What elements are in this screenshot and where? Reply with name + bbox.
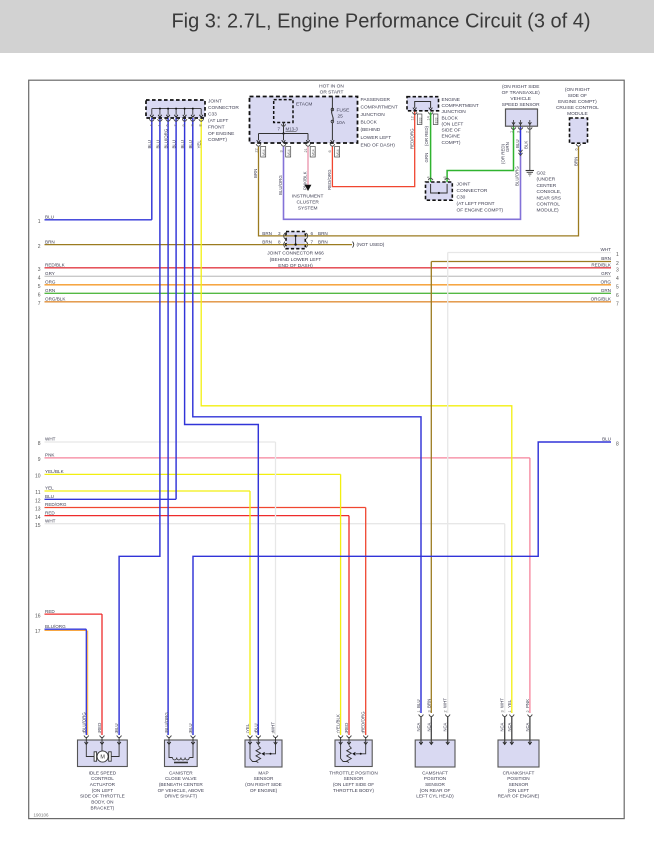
svg-text:JUNCTION: JUNCTION	[442, 109, 467, 115]
svg-text:BLU: BLU	[602, 437, 611, 442]
svg-text:BLU: BLU	[45, 494, 54, 499]
MAP potentiometer symbol	[250, 745, 257, 762]
svg-text:9: 9	[182, 124, 186, 126]
svg-text:4: 4	[427, 176, 431, 178]
MAP YEL wire from row11	[249, 491, 251, 735]
svg-text:HOT IN ON: HOT IN ON	[319, 84, 344, 90]
svg-text:SENSOR: SENSOR	[509, 782, 529, 787]
C33 wire7 YEL to crankshaft YEL pin1	[201, 118, 512, 713]
svg-text:4: 4	[38, 276, 41, 282]
C33 wire2 BLU down to ISC BLU pin2	[119, 118, 160, 735]
svg-text:NCA: NCA	[443, 722, 448, 731]
svg-text:OF ENGINE COMPT): OF ENGINE COMPT)	[457, 207, 504, 213]
svg-text:BRN: BRN	[45, 239, 55, 244]
svg-text:BLU: BLU	[515, 139, 520, 148]
svg-text:1: 1	[509, 131, 513, 133]
wire row 13 RED/ORG	[45, 507, 366, 509]
svg-text:6: 6	[443, 176, 447, 178]
svg-text:THROTTLE POSITION: THROTTLE POSITION	[329, 770, 377, 775]
svg-text:PASSENGER: PASSENGER	[361, 97, 391, 103]
svg-text:(BEHIND: (BEHIND	[361, 127, 381, 133]
ETACM output / M13-3	[283, 123, 285, 134]
svg-text:(OR RED): (OR RED)	[501, 143, 506, 164]
crankshaft pin 2	[528, 715, 533, 717]
svg-text:MODULE): MODULE)	[537, 208, 560, 214]
crankshaft pin 1	[509, 715, 514, 717]
svg-text:THROTTLE BODY): THROTTLE BODY)	[333, 788, 374, 793]
svg-text:ORG/BLK: ORG/BLK	[45, 297, 66, 302]
svg-text:END OF DASH): END OF DASH)	[278, 263, 313, 269]
svg-text:ORG/BLK: ORG/BLK	[591, 297, 612, 302]
svg-text:C33: C33	[208, 111, 217, 117]
svg-text:RED/ORG: RED/ORG	[361, 711, 366, 732]
cruise control module	[570, 118, 588, 143]
svg-text:RED/ORG: RED/ORG	[45, 502, 67, 507]
ETACM box	[274, 100, 293, 123]
svg-text:BLU/ORG: BLU/ORG	[81, 712, 86, 732]
svg-text:RED/BLK: RED/BLK	[591, 263, 612, 268]
svg-text:BLU/ORG: BLU/ORG	[45, 624, 66, 629]
svg-text:COMPT): COMPT)	[208, 137, 227, 143]
svg-text:M14: M14	[287, 149, 291, 156]
C33 wire3 BLU/ORG down to canister pin1	[167, 118, 169, 735]
svg-text:(AT LEFT: (AT LEFT	[208, 118, 228, 124]
svg-text:ENGINE: ENGINE	[442, 97, 460, 103]
svg-text:JOINT CONNECTOR M66: JOINT CONNECTOR M66	[267, 251, 324, 257]
svg-text:BLU: BLU	[253, 723, 258, 732]
wire row 5 left ORG	[45, 284, 612, 286]
wire row 7 left ORG/BLK	[45, 301, 612, 303]
svg-text:CLOSE VALVE: CLOSE VALVE	[165, 776, 197, 781]
svg-text:BLU/ORG: BLU/ORG	[514, 166, 519, 186]
svg-text:LEFT CYL HEAD): LEFT CYL HEAD)	[416, 794, 454, 799]
svg-text:(ON LEFT SIDE OF: (ON LEFT SIDE OF	[333, 782, 374, 787]
svg-text:YEL: YEL	[45, 486, 54, 491]
svg-text:ENGINE: ENGINE	[442, 134, 460, 140]
camshaft BRN wire from right row2	[430, 262, 432, 714]
svg-text:LOWER LEFT: LOWER LEFT	[361, 135, 392, 141]
svg-text:BLU/ORG: BLU/ORG	[164, 128, 169, 148]
wire row 4 left GRY	[45, 275, 612, 277]
svg-text:M14: M14	[262, 149, 266, 156]
svg-text:GRY: GRY	[601, 271, 611, 276]
svg-text:3: 3	[516, 131, 520, 133]
throttle position sensor	[335, 740, 372, 767]
svg-text:POSITION: POSITION	[507, 776, 529, 781]
svg-text:8: 8	[199, 124, 203, 126]
svg-text:GRY: GRY	[45, 271, 55, 276]
svg-text:WHT: WHT	[601, 247, 612, 252]
svg-text:(ON LEFT: (ON LEFT	[442, 121, 464, 127]
svg-text:SIDE OF: SIDE OF	[442, 128, 461, 134]
svg-text:OF VEHICLE, ABOVE: OF VEHICLE, ABOVE	[158, 788, 204, 793]
joint connector C30	[426, 182, 453, 200]
crankshaft position sensor	[498, 740, 539, 767]
crankshaft WHT wire from row15	[504, 524, 506, 713]
svg-text:(ON REAR OF: (ON REAR OF	[420, 788, 451, 793]
svg-text:YEL/BLK: YEL/BLK	[336, 714, 341, 732]
svg-text:IDLE SPEED: IDLE SPEED	[89, 770, 117, 775]
joint connector C33	[146, 100, 205, 118]
svg-text:BLU: BLU	[180, 140, 185, 149]
camshaft position sensor	[415, 740, 455, 767]
svg-text:MODULE: MODULE	[567, 111, 588, 117]
svg-text:6: 6	[311, 231, 314, 236]
C33 wire5 BLU to MAP BLU pin3	[185, 118, 259, 735]
svg-text:OF ENGINE: OF ENGINE	[208, 131, 234, 137]
svg-text:YEL/BLK: YEL/BLK	[45, 469, 65, 474]
svg-text:(ON RIGHT SIDE: (ON RIGHT SIDE	[502, 84, 540, 90]
svg-text:CONNECTOR: CONNECTOR	[457, 188, 488, 194]
svg-text:8: 8	[38, 441, 41, 447]
svg-text:NCA: NCA	[416, 722, 421, 731]
svg-text:OF TRANSAXLE): OF TRANSAXLE)	[502, 90, 540, 96]
svg-text:M13-3: M13-3	[286, 127, 299, 132]
svg-text:BLU: BLU	[45, 215, 54, 220]
svg-text:OF ENGINE): OF ENGINE)	[250, 788, 278, 793]
svg-text:9: 9	[38, 457, 41, 463]
svg-text:(ON LEFT: (ON LEFT	[92, 788, 113, 793]
svg-text:BLU: BLU	[114, 723, 119, 732]
idle speed control actuator	[78, 740, 128, 767]
svg-text:13: 13	[35, 507, 41, 513]
joint connector M66	[286, 232, 305, 249]
wire RED/ORG PCJB to engine junction block pin12	[332, 112, 414, 187]
wire BLK VSS pin2 to ground	[529, 126, 531, 170]
svg-text:8: 8	[278, 240, 281, 245]
svg-text:10: 10	[35, 474, 41, 480]
wire row 15 WHT	[45, 523, 505, 525]
svg-text:(AT LEFT FRONT: (AT LEFT FRONT	[457, 201, 495, 207]
svg-text:3: 3	[278, 231, 281, 236]
svg-text:CONTROL: CONTROL	[537, 202, 561, 208]
svg-text:3: 3	[279, 150, 283, 152]
svg-text:12: 12	[411, 116, 415, 120]
svg-text:RED/ORG: RED/ORG	[327, 169, 332, 190]
junction branch	[259, 133, 309, 135]
svg-text:M14: M14	[312, 149, 316, 156]
svg-text:14: 14	[426, 116, 430, 120]
svg-text:CONSOLE,: CONSOLE,	[537, 189, 562, 195]
C33 wire6 BLU to camshaft BLU pin1	[193, 118, 421, 713]
svg-text:RED: RED	[45, 609, 55, 614]
svg-text:SENSOR: SENSOR	[344, 776, 364, 781]
ground G02	[526, 170, 534, 172]
ISC RED wire from row16	[101, 614, 103, 735]
svg-text:BRACKET): BRACKET)	[91, 805, 115, 810]
svg-text:VEHICLE: VEHICLE	[510, 96, 531, 102]
engine compartment junction block	[407, 97, 439, 111]
svg-text:NCA: NCA	[500, 722, 505, 731]
svg-text:ETACM: ETACM	[296, 102, 312, 108]
svg-text:NCA: NCA	[507, 722, 512, 731]
svg-text:PNK: PNK	[45, 453, 55, 458]
svg-text:3: 3	[38, 267, 41, 273]
svg-text:YEL: YEL	[507, 699, 512, 708]
svg-text:6: 6	[574, 148, 578, 150]
svg-text:MAP: MAP	[258, 770, 268, 775]
svg-text:(ON RIGHT SIDE: (ON RIGHT SIDE	[245, 782, 282, 787]
svg-text:CENTER: CENTER	[537, 183, 557, 189]
wire row 2 left BRN	[45, 244, 287, 246]
svg-text:2: 2	[444, 710, 448, 712]
svg-text:ENGINE COMPT): ENGINE COMPT)	[558, 99, 597, 105]
instrument cluster arrow	[305, 185, 312, 191]
svg-text:CRANKSHAFT: CRANKSHAFT	[503, 770, 535, 775]
svg-text:BLU: BLU	[172, 140, 177, 149]
svg-text:BRN: BRN	[426, 699, 431, 708]
svg-text:COMPARTMENT: COMPARTMENT	[361, 104, 398, 110]
svg-text:WHT: WHT	[45, 437, 56, 442]
svg-text:CANISTER: CANISTER	[169, 770, 193, 775]
svg-text:3: 3	[501, 710, 505, 712]
svg-text:E33: E33	[434, 117, 438, 123]
svg-text:1: 1	[417, 710, 421, 712]
svg-text:BLU: BLU	[147, 140, 152, 149]
svg-text:BRN: BRN	[262, 240, 272, 245]
svg-text:(ON RIGHT: (ON RIGHT	[565, 87, 590, 93]
svg-text:10A: 10A	[337, 120, 346, 126]
svg-text:(NOT USED): (NOT USED)	[357, 242, 385, 248]
svg-text:NEAR SRS: NEAR SRS	[537, 195, 562, 201]
svg-text:1: 1	[38, 219, 41, 225]
svg-text:M: M	[100, 755, 105, 761]
svg-text:BLK: BLK	[524, 141, 529, 149]
wire row 9 PNK	[45, 457, 530, 459]
svg-text:BLOCK: BLOCK	[361, 120, 378, 126]
svg-text:C30: C30	[457, 195, 466, 201]
svg-text:RED: RED	[344, 723, 349, 732]
svg-text:RED/BLK: RED/BLK	[45, 263, 66, 268]
wire GRN engine block pin14 to C30 pin4	[430, 112, 432, 182]
M66 pin7 wire to NOT USED	[305, 244, 352, 246]
svg-text:BLU: BLU	[416, 699, 421, 708]
wire row 17 BLU/ORG (blue+orange pair)	[45, 628, 87, 630]
svg-text:GRN: GRN	[45, 288, 55, 293]
svg-text:SIDE OF THROTTLE: SIDE OF THROTTLE	[80, 794, 125, 799]
svg-text:OR START: OR START	[320, 90, 344, 96]
diagram border frame	[29, 80, 625, 818]
svg-text:4: 4	[616, 276, 619, 282]
svg-text:NCA: NCA	[426, 722, 431, 731]
svg-text:12: 12	[35, 499, 41, 505]
canister close valve	[165, 740, 198, 767]
svg-text:SPEED SENSOR: SPEED SENSOR	[502, 102, 540, 108]
svg-text:6: 6	[616, 293, 619, 299]
wire row 16 RED	[45, 613, 103, 615]
svg-text:WHT: WHT	[500, 698, 505, 708]
crankshaft pin 3	[502, 715, 507, 717]
svg-text:CONNECTOR: CONNECTOR	[208, 105, 239, 111]
svg-text:7: 7	[616, 301, 619, 307]
wire BRN cruise to M66 pin6	[305, 147, 578, 236]
throttle RED/ORG wire from row13	[365, 508, 367, 736]
svg-text:GRN: GRN	[424, 153, 429, 163]
svg-text:RED/ORG: RED/ORG	[409, 128, 414, 149]
svg-text:WHT: WHT	[45, 518, 56, 523]
svg-text:6: 6	[328, 150, 332, 152]
svg-text:15: 15	[35, 523, 41, 529]
wire GRN C30 pin6 to VSS pin1	[447, 126, 513, 182]
svg-text:YEL: YEL	[245, 723, 250, 732]
svg-text:BLU/ORG: BLU/ORG	[164, 712, 169, 732]
C33 wire1 BLU to row1	[151, 118, 153, 220]
ISC BLU/ORG wire from row17	[85, 629, 87, 735]
svg-text:SYSTEM: SYSTEM	[298, 206, 318, 212]
wire BLU/ORG PCJB to VSS pin3	[284, 147, 521, 220]
wire row 1 right WHT	[448, 252, 611, 254]
svg-text:(BENEATH CENTER: (BENEATH CENTER	[159, 782, 204, 787]
svg-text:G02: G02	[537, 171, 546, 177]
svg-text:7: 7	[174, 124, 178, 126]
svg-text:(UNDER: (UNDER	[537, 177, 556, 183]
svg-text:CONTROL: CONTROL	[91, 776, 114, 781]
svg-text:JOINT: JOINT	[457, 182, 471, 188]
svg-text:COMPARTMENT: COMPARTMENT	[442, 103, 479, 109]
svg-text:CAMSHAFT: CAMSHAFT	[422, 770, 448, 775]
svg-text:JOINT: JOINT	[208, 99, 222, 105]
svg-text:14: 14	[35, 515, 41, 521]
wire BRN PCJB to M66 pin3	[259, 147, 287, 236]
svg-text:DRIVE SHAFT): DRIVE SHAFT)	[165, 794, 198, 799]
inline connector on VSS wire	[519, 150, 523, 153]
svg-text:WHT: WHT	[443, 698, 448, 708]
svg-text:REAR OF ENGINE): REAR OF ENGINE)	[498, 794, 540, 799]
camshaft pin 1	[419, 715, 424, 717]
svg-text:3: 3	[616, 267, 619, 273]
passenger compartment junction block	[250, 97, 358, 144]
svg-text:2: 2	[38, 244, 41, 250]
svg-text:1: 1	[616, 252, 619, 258]
throttle YEL/BLK wire from row10	[340, 474, 342, 735]
svg-text:1: 1	[157, 124, 161, 126]
svg-text:ORG: ORG	[601, 280, 612, 285]
MAP sensor	[245, 740, 282, 767]
fuse 25 10A	[331, 97, 333, 110]
svg-text:21: 21	[304, 148, 308, 152]
svg-text:RED: RED	[45, 510, 55, 515]
svg-text:M14: M14	[336, 149, 340, 156]
svg-text:CLUSTER: CLUSTER	[297, 200, 320, 206]
svg-text:SIDE OF: SIDE OF	[568, 93, 587, 99]
svg-text:(BEHIND LOWER LEFT: (BEHIND LOWER LEFT	[270, 257, 322, 263]
svg-text:BRN: BRN	[262, 231, 272, 236]
svg-text:BRN: BRN	[601, 256, 611, 261]
svg-text:1: 1	[508, 710, 512, 712]
svg-text:PNK: PNK	[525, 699, 530, 708]
svg-text:BRN: BRN	[574, 157, 579, 166]
wire row 3 left RED/BLK	[45, 267, 612, 269]
svg-text:2: 2	[526, 131, 530, 133]
canister coil symbol	[169, 745, 173, 758]
svg-text:FUSE: FUSE	[337, 108, 350, 114]
svg-text:BODY, ON: BODY, ON	[91, 800, 113, 805]
svg-text:8: 8	[616, 442, 619, 448]
svg-text:END OF DASH): END OF DASH)	[361, 142, 396, 148]
svg-text:GRN: GRN	[601, 288, 611, 293]
svg-text:INSTRUMENT: INSTRUMENT	[292, 193, 324, 199]
svg-text:RED: RED	[97, 723, 102, 732]
wire row 8 WHT	[45, 441, 276, 443]
svg-text:COMPT): COMPT)	[442, 140, 461, 146]
svg-text:BLU: BLU	[155, 140, 160, 149]
crankshaft PNK wire from row9	[529, 458, 531, 713]
svg-text:NCA: NCA	[525, 722, 530, 731]
svg-text:16: 16	[35, 613, 41, 619]
VSS pin3 BLU upper segment	[520, 126, 522, 155]
wire row 6 left GRN	[45, 292, 612, 294]
svg-text:3: 3	[190, 124, 194, 126]
ISC motor symbol	[86, 745, 95, 757]
svg-text:BRN: BRN	[318, 231, 328, 236]
row8 BLU net to canister pin2	[193, 442, 611, 735]
svg-text:11: 11	[35, 490, 40, 496]
svg-text:(OR RED): (OR RED)	[424, 125, 429, 146]
wire row 12 BLU	[45, 498, 177, 500]
svg-text:E33: E33	[418, 117, 422, 123]
svg-text:CRUISE CONTROL: CRUISE CONTROL	[556, 105, 599, 111]
svg-text:BLOCK: BLOCK	[442, 115, 459, 121]
svg-text:ORG: ORG	[45, 280, 56, 285]
svg-text:YEL: YEL	[197, 140, 202, 149]
svg-text:7: 7	[311, 240, 314, 245]
svg-text:5: 5	[38, 284, 41, 290]
svg-text:2: 2	[616, 261, 619, 267]
TPS potentiometer symbol	[341, 745, 348, 762]
svg-text:4: 4	[149, 124, 153, 126]
vehicle speed sensor	[506, 109, 538, 126]
svg-text:WHT: WHT	[271, 722, 276, 732]
svg-text:Fig 3: 2.7L, Engine Performanc: Fig 3: 2.7L, Engine Performance Circuit …	[171, 11, 590, 33]
svg-text:22: 22	[254, 148, 258, 152]
svg-text:7: 7	[38, 301, 41, 307]
throttle RED wire from row14	[348, 516, 350, 735]
svg-text:GRN: GRN	[505, 142, 510, 152]
svg-text:SENSOR: SENSOR	[254, 776, 274, 781]
wire PNK/BLK to instrument cluster	[307, 147, 309, 185]
MAP WHT wire from row8	[275, 442, 277, 735]
wire row 14 RED	[45, 515, 350, 517]
svg-text:25: 25	[338, 114, 344, 120]
svg-text:ACTUATOR: ACTUATOR	[90, 782, 116, 787]
svg-text:2: 2	[526, 710, 530, 712]
svg-text:(ON LEFT: (ON LEFT	[508, 788, 529, 793]
svg-text:6: 6	[166, 124, 170, 126]
svg-text:SENSOR: SENSOR	[425, 782, 445, 787]
camshaft pin 2	[445, 715, 450, 717]
camshaft WHT wire from right row1	[447, 253, 449, 714]
svg-text:BRN: BRN	[318, 240, 328, 245]
header bar	[0, 0, 654, 53]
wire row 2 right BRN	[431, 261, 611, 263]
svg-text:190106: 190106	[34, 813, 50, 818]
wire row 1 left BLU	[45, 219, 152, 221]
wire row 11 YEL	[45, 490, 251, 492]
svg-text:FRONT: FRONT	[208, 124, 225, 130]
svg-text:17: 17	[35, 629, 41, 635]
svg-text:BLU: BLU	[188, 723, 193, 732]
svg-text:3: 3	[427, 710, 431, 712]
svg-text:BLU/ORG: BLU/ORG	[278, 175, 283, 195]
svg-text:6: 6	[38, 293, 41, 299]
wire row 10 YEL/BLK	[45, 473, 341, 475]
svg-text:POSITION: POSITION	[424, 776, 446, 781]
svg-text:BRN: BRN	[253, 169, 258, 178]
camshaft pin 3	[429, 715, 434, 717]
svg-text:5: 5	[616, 284, 619, 290]
svg-text:JUNCTION: JUNCTION	[361, 112, 386, 118]
svg-text:BLU: BLU	[188, 140, 193, 149]
